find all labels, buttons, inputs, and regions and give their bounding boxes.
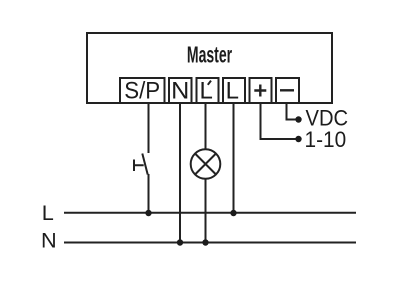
wire from lamp down to N line — [205, 179, 207, 243]
lamp E1 cross — [195, 154, 216, 175]
pushbutton S1 actuator — [134, 160, 144, 172]
svg-text:N: N — [171, 78, 189, 104]
plus sign in terminal — [254, 85, 266, 97]
wire from plus terminal to 1-10 node — [261, 104, 297, 139]
junction dot lamp wire on N line — [202, 239, 208, 245]
node dot 1-10 — [295, 136, 301, 142]
prime mark on L' — [208, 81, 211, 85]
terminal box L — [223, 78, 245, 103]
terminal box plus — [250, 78, 272, 103]
wire from N terminal down to N line — [179, 104, 181, 243]
pushbutton S1 blade — [142, 154, 147, 175]
terminal box minus — [276, 78, 299, 103]
terminal box L' — [197, 78, 219, 103]
svg-text:N: N — [41, 228, 57, 253]
junction dot L wire on L line — [230, 210, 236, 216]
wire from switch down to L line — [148, 174, 150, 213]
wire from L terminal down to L line — [233, 104, 235, 213]
L power line — [64, 212, 356, 214]
wire from L' terminal down to lamp — [205, 104, 207, 149]
minus sign in terminal — [280, 89, 294, 91]
svg-text:L: L — [226, 78, 239, 105]
svg-text:S/P: S/P — [124, 77, 160, 104]
junction dot S/P wire on L line — [145, 210, 151, 216]
svg-text:L: L — [42, 200, 54, 225]
wire from minus terminal to VDC node — [287, 104, 297, 120]
svg-text:Master: Master — [187, 43, 233, 68]
terminal box N — [169, 78, 192, 103]
wire from S/P terminal down to switch — [148, 104, 150, 153]
terminal box S/P — [120, 78, 165, 103]
svg-text:1-10: 1-10 — [305, 126, 347, 152]
device box U1 Master — [87, 33, 332, 103]
junction dot N wire on N line — [177, 239, 183, 245]
lamp E1 circle — [191, 149, 221, 179]
N power line — [64, 242, 356, 244]
node dot VDC — [295, 116, 301, 122]
